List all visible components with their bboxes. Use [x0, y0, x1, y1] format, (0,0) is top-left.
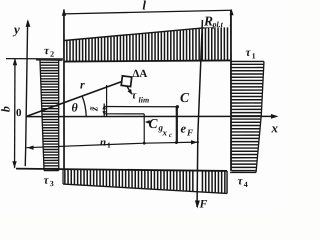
svg-text:1: 1 — [107, 141, 111, 150]
svg-text:e: e — [181, 121, 187, 135]
svg-text:θ: θ — [71, 101, 78, 115]
svg-text:C: C — [180, 90, 190, 105]
svg-text:F: F — [186, 127, 193, 137]
svg-text:0: 0 — [16, 107, 22, 119]
svg-text:x: x — [162, 127, 168, 137]
svg-text:4: 4 — [244, 180, 248, 189]
svg-text:pl.t: pl.t — [211, 20, 223, 29]
svg-text:x: x — [271, 120, 279, 135]
svg-text:C: C — [149, 116, 159, 131]
svg-text:ΔA: ΔA — [132, 68, 147, 80]
svg-text:r: r — [80, 78, 85, 92]
svg-text:b: b — [0, 106, 13, 112]
svg-text:y: y — [12, 22, 20, 37]
svg-text:τ: τ — [44, 175, 50, 187]
svg-text:F: F — [199, 198, 208, 210]
svg-text:3: 3 — [50, 179, 54, 188]
svg-text:n: n — [100, 137, 106, 149]
svg-text:c: c — [169, 131, 172, 139]
svg-text:z̃: z̃ — [88, 106, 100, 112]
svg-text:lim: lim — [138, 95, 149, 104]
svg-text:τ: τ — [238, 175, 244, 187]
svg-text:τ: τ — [44, 45, 50, 57]
svg-text:l: l — [142, 0, 146, 12]
svg-text:2: 2 — [50, 50, 54, 59]
svg-text:τ: τ — [245, 47, 251, 59]
svg-text:1: 1 — [252, 52, 256, 61]
